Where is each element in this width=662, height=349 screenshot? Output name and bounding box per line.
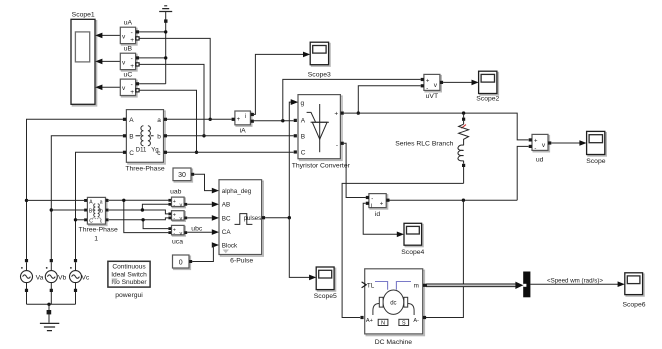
wire uVT to Scope2 — [443, 80, 479, 86]
svg-text:No Snubber: No Snubber — [111, 279, 147, 286]
wire node c to ubc- and uca+ — [109, 218, 168, 229]
svg-text:m: m — [414, 283, 419, 290]
svg-text:+: + — [237, 117, 241, 123]
transformer Three-Phase — [123, 110, 167, 173]
svg-text:iA: iA — [240, 127, 247, 134]
svg-text:v: v — [180, 231, 183, 237]
wire + rail to ud+ — [344, 111, 529, 139]
wire gate pulses to thyristor g — [265, 99, 298, 219]
ground (bottom) — [40, 304, 59, 330]
wire Vb node to Three-Phase 1 B — [51, 209, 84, 211]
wire pulses to Scope5 — [289, 218, 316, 281]
svg-text:Thyristor Converter: Thyristor Converter — [292, 163, 351, 170]
svg-text:Block: Block — [222, 243, 238, 250]
svg-text:uC: uC — [124, 72, 133, 79]
wire Vc node to Three-Phase 1 C — [76, 219, 85, 221]
svg-text:id: id — [375, 211, 381, 218]
wire uB to Scope1 — [95, 59, 120, 65]
net label Speed — [547, 277, 603, 284]
svg-text:D11: D11 — [136, 147, 147, 153]
svg-text:Vb: Vb — [58, 274, 67, 281]
wire phase a — [167, 118, 232, 120]
svg-text:1: 1 — [94, 236, 98, 243]
wire uB+ to phase b — [139, 64, 206, 137]
wire id out rail — [390, 199, 518, 202]
wire ud to Scope — [551, 140, 586, 146]
wire phase c — [167, 151, 294, 153]
svg-text:+: + — [380, 201, 384, 207]
wire uB- to ground node — [139, 56, 167, 59]
svg-text:+: + — [130, 63, 134, 70]
wire iA out to thyristor A — [254, 119, 294, 122]
wire 0 to Block — [192, 245, 213, 262]
svg-text:i: i — [371, 203, 372, 209]
svg-text:AB: AB — [222, 202, 230, 209]
wire column Vc to transformer C — [74, 152, 123, 259]
svg-text:ud: ud — [536, 157, 544, 164]
svg-text:Continuous: Continuous — [112, 264, 146, 271]
wire Va node to Three-Phase 1 A — [27, 199, 85, 201]
scope Scope2 — [476, 71, 499, 102]
svg-text:+: + — [130, 37, 134, 44]
voltage measurement uVT — [421, 74, 443, 100]
svg-text:v: v — [180, 203, 183, 209]
svg-text:+: + — [334, 111, 338, 118]
svg-text:b: b — [157, 134, 161, 141]
wire uVT+ tap from phase a node — [283, 79, 421, 120]
svg-text:Scope3: Scope3 — [308, 71, 331, 78]
svg-text:C: C — [301, 150, 306, 157]
wire node b to ubc+ and uab- — [109, 204, 168, 214]
motor DC Machine — [360, 269, 426, 346]
scope Scope5 — [314, 267, 337, 300]
wire uC+ to phase c — [139, 90, 198, 154]
wire uVT- tap to +rail — [357, 86, 421, 115]
svg-text:g: g — [301, 100, 305, 107]
wire neutral bus — [27, 303, 76, 306]
scope Scope — [586, 131, 606, 165]
svg-text:S: S — [402, 321, 406, 327]
svg-text:uab: uab — [170, 189, 182, 196]
svg-text:BC: BC — [222, 215, 231, 222]
svg-text:B: B — [129, 134, 133, 141]
svg-text:a: a — [100, 200, 103, 206]
svg-text:uVT: uVT — [426, 93, 438, 100]
svg-text:6-Pulse: 6-Pulse — [230, 257, 253, 264]
thyristor converter U1 — [291, 95, 351, 170]
svg-text:N: N — [381, 321, 385, 327]
svg-text:TL: TL — [367, 283, 375, 290]
current measurement id — [366, 194, 390, 218]
svg-text:C: C — [129, 150, 134, 157]
wire id signal to Scope4 — [363, 203, 404, 237]
svg-text:Vc: Vc — [81, 274, 90, 281]
wire uab out to AB — [187, 203, 212, 205]
svg-text:Yg: Yg — [151, 147, 158, 153]
svg-text:Scope2: Scope2 — [476, 95, 499, 102]
wire uC to Scope1 — [95, 85, 120, 91]
svg-text:+: + — [534, 138, 538, 144]
scope Scope3 — [308, 42, 331, 78]
wire iA signal to Scope3 — [254, 52, 310, 115]
scope Scope6 — [622, 273, 645, 309]
svg-text:Va: Va — [36, 274, 44, 281]
svg-text:A: A — [129, 117, 134, 124]
wire phase b — [167, 135, 294, 137]
svg-text:A: A — [301, 118, 306, 125]
constant 0 — [173, 255, 193, 269]
svg-text:powergui: powergui — [115, 292, 143, 299]
svg-text:<Speed wm (rad/s)>: <Speed wm (rad/s)> — [547, 277, 603, 284]
measurement Three-Phase 1 — [79, 197, 119, 242]
svg-text:-: - — [131, 82, 133, 89]
svg-text:Scope5: Scope5 — [314, 293, 337, 300]
scope Scope1 — [71, 12, 97, 106]
svg-text:-: - — [426, 86, 428, 92]
source Vb — [45, 259, 66, 304]
wire uca out to CA — [187, 231, 212, 233]
powergui block — [108, 261, 150, 299]
svg-text:-: - — [173, 203, 175, 209]
demux selector — [523, 272, 530, 298]
svg-text:dc: dc — [390, 301, 396, 307]
svg-text:-: - — [173, 216, 175, 222]
wire speed to Scope6 — [530, 281, 624, 287]
svg-text:Ideal Switch: Ideal Switch — [111, 271, 147, 278]
svg-text:B: B — [301, 134, 305, 141]
pulse generator 6-Pulse — [212, 180, 265, 265]
ground (top) — [159, 6, 172, 84]
svg-text:a: a — [157, 117, 161, 124]
wire m vector signal to demux — [426, 282, 523, 289]
wire uA+ to phase a — [139, 38, 212, 121]
wire column Va to transformer A — [25, 119, 123, 259]
constant 30 — [173, 168, 194, 182]
svg-text:-: - — [534, 146, 536, 152]
svg-text:alpha_deg: alpha_deg — [222, 188, 252, 195]
svg-text:ubc: ubc — [191, 226, 203, 233]
svg-text:Series RLC Branch: Series RLC Branch — [395, 141, 453, 148]
svg-text:CA: CA — [222, 229, 232, 236]
wire A- drop — [426, 200, 464, 317]
series RLC branch — [395, 113, 468, 183]
wire column Vb to transformer B — [50, 136, 123, 259]
wire node a to uab+ and uca- — [109, 199, 168, 233]
wire DC minus rail to DC machine A+ — [342, 183, 464, 317]
svg-text:Three-Phase: Three-Phase — [79, 227, 119, 234]
wire uC- to ground node — [139, 83, 166, 85]
wire thyristor - to id — [344, 143, 366, 197]
svg-text:Scope4: Scope4 — [401, 249, 424, 256]
voltage measurement uB — [120, 46, 139, 71]
wire ubc out to BC — [187, 217, 212, 219]
svg-text:v: v — [180, 216, 183, 222]
scope Scope4 — [401, 223, 424, 256]
svg-text:pulses: pulses — [244, 215, 262, 222]
svg-text:uB: uB — [124, 46, 133, 53]
source Va — [21, 259, 44, 304]
svg-text:uca: uca — [172, 239, 183, 246]
voltage measurement uC — [120, 72, 139, 97]
voltage measurement uA — [120, 20, 139, 45]
voltage measurement uca — [168, 225, 187, 245]
svg-text:-: - — [371, 196, 373, 202]
svg-text:30: 30 — [178, 172, 186, 179]
svg-text:Three-Phase: Three-Phase — [125, 165, 165, 172]
source Vc — [70, 259, 90, 304]
wire uA- to ground node — [139, 30, 167, 33]
svg-text:Scope: Scope — [586, 158, 605, 165]
voltage measurement ud — [529, 134, 552, 163]
wire ud- riser — [517, 146, 528, 200]
wire 30 to alpha_deg — [194, 174, 212, 190]
voltage measurement uab — [168, 189, 187, 209]
current measurement iA — [232, 111, 254, 134]
svg-text:Scope6: Scope6 — [622, 302, 645, 309]
svg-text:i: i — [245, 114, 246, 120]
svg-text:uA: uA — [124, 20, 133, 27]
svg-text:-: - — [173, 231, 175, 237]
svg-text:0: 0 — [179, 259, 183, 266]
voltage measurement ubc — [168, 211, 202, 233]
svg-text:-: - — [131, 56, 133, 63]
svg-text:-: - — [336, 142, 338, 149]
svg-text:-: - — [131, 30, 133, 37]
wire uA to Scope1 — [95, 33, 120, 39]
svg-text:+: + — [426, 78, 430, 84]
svg-text:Scope1: Scope1 — [72, 12, 95, 19]
svg-text:+: + — [130, 89, 134, 96]
svg-text:A-: A- — [413, 318, 419, 324]
svg-text:A+: A+ — [366, 318, 373, 324]
svg-text:DC Machine: DC Machine — [375, 339, 413, 346]
svg-text:C: C — [89, 218, 93, 224]
svg-text:b: b — [100, 209, 103, 215]
